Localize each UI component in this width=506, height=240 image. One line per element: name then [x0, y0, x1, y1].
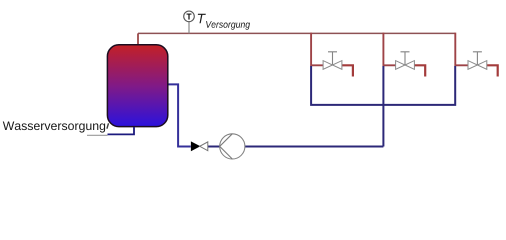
wire branch 3 red drop — [455, 33, 468, 66]
wire valve 3 outlet stub — [487, 65, 498, 76]
wire water supply inlet (navy) — [108, 127, 135, 134]
wire valve 1 outlet stub — [342, 65, 353, 76]
pump circle — [220, 134, 245, 159]
label T_Versorgung — [198, 14, 206, 23]
valve V2 — [396, 52, 415, 70]
sensor letter T — [187, 14, 192, 20]
wire branch 2 red drop — [383, 33, 395, 66]
wire blue branch 2 drop to bottom return — [382, 66, 384, 147]
wire branch 1 red drop — [311, 33, 323, 66]
check valve open triangle — [200, 142, 208, 151]
wire tank top riser (red) — [137, 33, 139, 46]
label Wasserversorgung — [3, 122, 105, 133]
sensor T circle — [184, 11, 195, 22]
tank (storage vessel) — [107, 45, 167, 127]
pump internal chords — [220, 134, 233, 159]
wire valve 2 outlet stub — [414, 65, 425, 76]
wire blue return loop branch1 to branch3 — [311, 66, 455, 105]
valve V1 — [323, 52, 342, 70]
sensor stem — [188, 22, 190, 34]
leader line (gray) — [87, 134, 108, 136]
wire tank outlet to pump line (blue) — [168, 84, 191, 146]
check valve black triangle — [191, 142, 200, 151]
wire supply top horizontal (red) — [138, 32, 455, 34]
valve V3 — [468, 52, 487, 70]
label apostrophe tick — [107, 123, 109, 128]
wire check valve to pump (blue) — [208, 146, 220, 148]
wire pump to branch 2 (blue) — [245, 146, 384, 148]
